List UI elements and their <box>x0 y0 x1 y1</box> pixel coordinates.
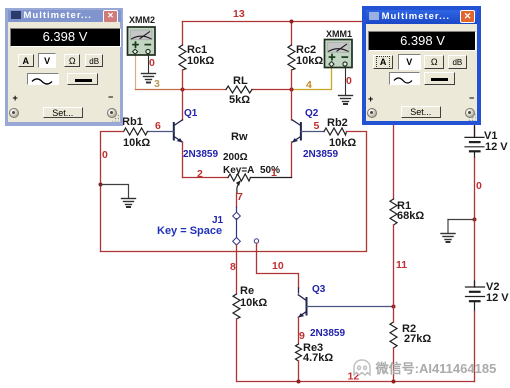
svg-text:Rb2: Rb2 <box>327 117 348 129</box>
svg-text:10kΩ: 10kΩ <box>240 297 267 309</box>
wire R2 leads <box>393 307 395 323</box>
wire V1 top (behind window) <box>474 22 476 138</box>
resistor R1 <box>390 199 397 225</box>
wire Q3 base to divider <box>307 306 394 308</box>
svg-text:RL: RL <box>233 75 248 87</box>
node dot Re3 bottom <box>297 380 301 384</box>
battery V1 <box>465 126 484 158</box>
svg-text:13: 13 <box>233 8 245 20</box>
resistor Rc2 <box>288 45 295 70</box>
potentiometer Rw <box>228 174 251 181</box>
resistor Rb1 <box>124 128 148 135</box>
wire net4: RL right to Rc2 bottom <box>252 89 292 91</box>
svg-text:Key = Space: Key = Space <box>157 225 222 237</box>
svg-text:4.7kΩ: 4.7kΩ <box>303 352 333 364</box>
svg-text:12 V: 12 V <box>485 141 508 153</box>
wire net3 orange: XMM2 plus to Rc1 bottom <box>135 54 137 90</box>
svg-text:0: 0 <box>346 75 352 87</box>
wire ground stub right <box>448 219 475 221</box>
svg-text:2N3859: 2N3859 <box>310 328 345 339</box>
wire mid node to V2 <box>474 220 476 288</box>
svg-text:200Ω: 200Ω <box>223 152 248 163</box>
wire XMM2 minus to ground <box>148 54 150 73</box>
resistor Re3 <box>296 344 302 361</box>
ground XMM2 <box>142 74 156 83</box>
node dot divider <box>392 305 396 309</box>
multimeter window XMM1 (right, active) <box>362 6 481 125</box>
wire top rail net13 <box>183 21 475 23</box>
svg-text:0: 0 <box>476 180 482 192</box>
resistor RL <box>226 86 252 93</box>
battery V2 <box>466 281 485 311</box>
node dot Rc2 bottom <box>290 88 294 92</box>
svg-text:4: 4 <box>306 79 312 91</box>
svg-text:XMM1: XMM1 <box>326 29 352 39</box>
wire R1 to divider <box>393 225 395 307</box>
wire Rw right to Q2 emitter <box>251 177 292 179</box>
svg-text:2: 2 <box>197 168 203 180</box>
resistor R2 <box>390 322 397 348</box>
wire net0 right <box>101 132 367 252</box>
svg-text:2N3859: 2N3859 <box>183 149 218 160</box>
svg-text:11: 11 <box>396 259 407 271</box>
svg-text:6: 6 <box>155 120 161 132</box>
multimeter window XMM2 (left, inactive) <box>5 8 123 126</box>
svg-text:68kΩ: 68kΩ <box>397 210 424 222</box>
svg-text:10kΩ: 10kΩ <box>296 55 323 67</box>
svg-text:0: 0 <box>102 149 108 161</box>
ground mid right <box>441 234 455 243</box>
wire net0 left <box>101 132 124 252</box>
svg-text:Re: Re <box>240 285 254 297</box>
svg-text:Q3: Q3 <box>312 284 326 295</box>
resistor Rb2 <box>324 128 347 135</box>
wire net4 yellow to XMM1 <box>292 68 332 90</box>
svg-text:Rw: Rw <box>231 131 248 143</box>
wire V2 bottom <box>474 311 476 382</box>
multimeter icon XMM2 <box>128 15 156 55</box>
node dot ground tap <box>99 183 103 187</box>
svg-text:10kΩ: 10kΩ <box>329 137 356 149</box>
svg-text:10kΩ: 10kΩ <box>187 55 214 67</box>
wire ground stub left <box>101 185 129 199</box>
wire J1 bottom to Re <box>236 245 238 295</box>
svg-text:3: 3 <box>154 78 160 90</box>
svg-text:Key=A: Key=A <box>223 165 254 176</box>
svg-text:Q2: Q2 <box>305 108 319 119</box>
wire V1 to mid node <box>474 158 476 220</box>
svg-text:5: 5 <box>314 120 320 132</box>
wire Rc2 top lead <box>291 22 293 46</box>
wire R1 top (behind window) <box>393 22 395 200</box>
svg-text:Rb1: Rb1 <box>122 116 143 128</box>
svg-text:9: 9 <box>299 330 305 342</box>
svg-text:5kΩ: 5kΩ <box>229 94 250 106</box>
wire Re bottom <box>237 319 475 382</box>
wire Re3 bottom <box>298 361 300 382</box>
switch J1 <box>157 193 259 245</box>
resistor Rc1 <box>179 45 186 70</box>
resistor Re <box>233 294 240 319</box>
watermark <box>352 358 496 377</box>
node dot R2 bottom <box>392 380 396 384</box>
transistor Q2 <box>292 90 339 178</box>
ground left <box>122 199 136 208</box>
wire Rb2 base net5 <box>301 131 324 133</box>
svg-text:27kΩ: 27kΩ <box>404 333 431 345</box>
wire emitter Q1 to Rw <box>183 177 229 179</box>
svg-text:2N3859: 2N3859 <box>303 149 338 160</box>
svg-text:Q1: Q1 <box>184 108 198 119</box>
svg-text:XMM2: XMM2 <box>129 15 155 25</box>
wire J1 alt contact to Q3 collector <box>257 244 299 288</box>
svg-text:10kΩ: 10kΩ <box>123 137 150 149</box>
wire Rb1 base net6 <box>148 131 174 133</box>
transistor Q1 <box>174 90 219 178</box>
svg-text:12 V: 12 V <box>486 292 509 304</box>
wire XMM1 minus to ground <box>345 66 347 95</box>
svg-text:10: 10 <box>272 260 284 272</box>
multimeter icon XMM1 <box>325 29 353 68</box>
svg-text:7: 7 <box>237 191 243 203</box>
transistor Q3 <box>298 284 345 344</box>
svg-text:8: 8 <box>230 261 236 273</box>
node dot mid right <box>473 218 477 222</box>
wire Rc1 top lead <box>182 22 184 46</box>
ground XMM1 <box>339 96 353 105</box>
node dot net13/Rc2 <box>290 20 294 24</box>
node dot Rc1 bottom <box>181 88 185 92</box>
svg-text:0: 0 <box>149 57 155 69</box>
wire net3 to RL left <box>183 89 227 91</box>
